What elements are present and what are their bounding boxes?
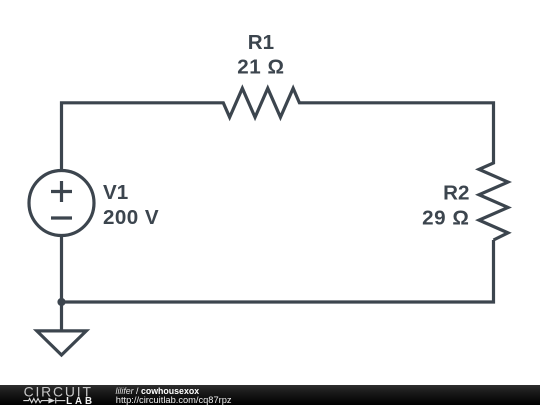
svg-text:LAB: LAB bbox=[66, 396, 95, 405]
